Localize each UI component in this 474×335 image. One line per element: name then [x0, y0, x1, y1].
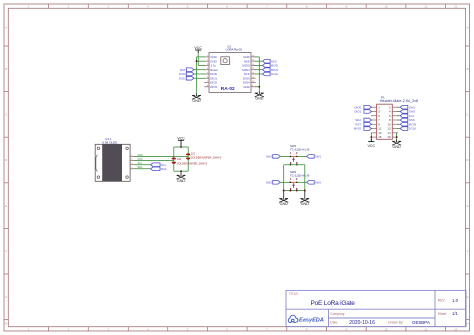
wire RST to Reset pin: [194, 69, 205, 71]
wire to MISO flag: [255, 69, 262, 71]
svg-text:C: C: [5, 113, 7, 117]
wire GND vertical left of U2: [196, 57, 198, 94]
op-amp U2 LORA Ra-02 module body: [209, 53, 251, 93]
node SW2 flag left: [266, 180, 280, 184]
wire to MOSI flag: [255, 64, 262, 66]
node DIO0 flag at P1: [354, 105, 371, 109]
svg-text:DIO3: DIO3: [210, 85, 217, 89]
svg-text:11: 11: [424, 5, 427, 9]
svg-text:RA-02: RA-02: [221, 86, 235, 92]
svg-text:EasyEDA: EasyEDA: [299, 318, 324, 324]
junction dot: [370, 136, 372, 138]
display U1.1 pins 1-4: [130, 155, 143, 170]
wire to SW2 flag at P1: [398, 110, 401, 112]
wire P1 pins 14,16 to GND: [396, 133, 398, 141]
wire jumper loop right: [187, 147, 189, 171]
node DIO1 flag: [179, 76, 194, 80]
svg-text:OE5BPA: OE5BPA: [412, 320, 431, 325]
jumper SJ1 pads: [186, 153, 191, 159]
wire OLED SCL: [133, 164, 150, 166]
svg-text:GND: GND: [392, 145, 401, 149]
svg-text:0.96 OLED: 0.96 OLED: [102, 140, 118, 144]
ground below P1: [392, 140, 401, 149]
svg-text:B: B: [5, 67, 7, 71]
ground below SW2 left: [279, 191, 288, 207]
node SCL flag at P1: [400, 114, 415, 118]
node RST flag at P1: [355, 122, 371, 126]
wire U2 pin1 GND: [197, 56, 205, 58]
wire jumper loop bottom: [174, 170, 188, 172]
svg-text:GND: GND: [280, 202, 289, 206]
svg-text:SW2: SW2: [315, 180, 322, 184]
svg-text:Company:: Company:: [330, 312, 345, 316]
wire to SCLK flag at P1: [398, 128, 401, 130]
svg-text:GND: GND: [192, 99, 201, 103]
svg-text:Date:: Date:: [330, 321, 338, 325]
display U1.1 left bracket mark: [96, 155, 98, 172]
wire to SCL flag at P1: [398, 115, 401, 117]
title block dividers: [286, 290, 466, 326]
wire P1 pins 13,15 to VCC: [370, 133, 372, 142]
svg-text:12: 12: [454, 5, 458, 9]
junction dot: [180, 170, 182, 172]
svg-text:PoE LoRa iGate: PoE LoRa iGate: [311, 300, 356, 307]
node SW1 flag left: [266, 155, 280, 159]
switch SW2 body: [289, 177, 298, 191]
svg-text:D: D: [5, 158, 7, 162]
svg-text:REV:: REV:: [438, 299, 446, 303]
wire SW1 to right flag: [297, 155, 307, 157]
wire OLED VCC to SJ2: [133, 160, 174, 162]
svg-text:C: C: [467, 113, 469, 117]
connector P1 right pins even: [387, 105, 398, 139]
wire DIO1: [194, 77, 205, 79]
switch SW1 body: [289, 151, 298, 165]
wire OLED SDA: [133, 168, 150, 170]
svg-text:SJ2: SJ2: [177, 158, 182, 161]
wire OLED GND to SJ1: [133, 155, 188, 157]
svg-text:TITLE:: TITLE:: [289, 292, 299, 296]
svg-text:SOLDERJUMPER_2WAYS: SOLDERJUMPER_2WAYS: [191, 157, 222, 160]
svg-text:10: 10: [384, 327, 388, 331]
wire SW2 to right flag: [297, 181, 307, 183]
junction dots bottom rail: [283, 190, 285, 192]
svg-text:A: A: [5, 25, 7, 29]
jumper SJ2 pads: [172, 157, 177, 163]
wire U2 pin9 GND: [255, 86, 259, 88]
node MISO flag: [263, 68, 279, 72]
node SW2 flag at P1: [400, 110, 415, 114]
svg-text:TC-1102-A-L-B: TC-1102-A-L-B: [290, 148, 309, 152]
wire to SW1 flag at P1: [398, 106, 401, 108]
svg-text:A: A: [467, 25, 469, 29]
svg-text:MISO: MISO: [354, 127, 362, 131]
VCC power flag below P1: [368, 139, 376, 148]
ground below SW2 right: [300, 191, 309, 207]
display U1.1 screen area: [102, 144, 122, 181]
svg-text:SCLK: SCLK: [271, 72, 279, 76]
VCC power flag above U2: [194, 46, 202, 53]
node RST flag: [180, 68, 194, 72]
node DIO1 flag at P1: [354, 110, 371, 114]
node SW1 flag at P1: [400, 105, 415, 109]
wire button loop bottom: [284, 190, 305, 192]
node DIO0 flag: [179, 72, 194, 76]
wire jumper loop top: [174, 146, 188, 148]
svg-text:D: D: [467, 158, 469, 162]
svg-text:F: F: [467, 249, 469, 253]
wire GND vertical right of U2: [258, 57, 260, 91]
connector P1 body: [377, 104, 393, 139]
svg-text:E: E: [467, 204, 469, 208]
svg-text:GND: GND: [243, 85, 249, 89]
svg-text:DIO1: DIO1: [354, 110, 361, 114]
wire left to SW2: [280, 181, 290, 183]
svg-text:GND: GND: [255, 97, 264, 101]
svg-text:GND: GND: [301, 202, 310, 206]
node NSS flag at P1: [400, 118, 415, 122]
svg-text:B: B: [467, 67, 469, 71]
svg-text:Drawn By:: Drawn By:: [388, 321, 403, 325]
svg-text:2020-10-16: 2020-10-16: [349, 320, 375, 326]
svg-text:11: 11: [424, 327, 427, 331]
svg-text:GND: GND: [177, 179, 186, 183]
svg-text:10: 10: [384, 5, 388, 9]
svg-text:SW1: SW1: [266, 155, 273, 159]
wire VCC to 3.3v pin: [197, 53, 199, 65]
svg-text:SDA: SDA: [161, 167, 167, 171]
node SW1 flag right: [307, 155, 322, 159]
node SDA flag at P1: [355, 118, 371, 122]
node SCL flag: [151, 163, 167, 167]
svg-text:SJ1: SJ1: [191, 152, 196, 155]
svg-text:16: 16: [387, 135, 391, 139]
wire U2 pin2 GND: [197, 60, 205, 62]
svg-text:1.0: 1.0: [452, 298, 459, 303]
svg-text:LORA Ra-02: LORA Ra-02: [226, 48, 243, 52]
svg-text:SOLDERJUMPER_2WAYS: SOLDERJUMPER_2WAYS: [177, 163, 208, 166]
EasyEDA logo: [288, 315, 324, 323]
svg-text:15: 15: [378, 135, 382, 139]
node MOSI flag: [263, 64, 279, 68]
wire jumper loop left: [173, 147, 175, 171]
node MOSI flag at P1: [400, 122, 416, 126]
node SW2 flag right: [307, 180, 322, 184]
display U1.1 body: [95, 144, 130, 181]
wire button loop right: [304, 165, 306, 191]
VCC power flag above jumpers: [177, 136, 185, 147]
svg-text:VCC: VCC: [177, 136, 185, 140]
title block outline: [286, 290, 466, 326]
svg-text:SW1: SW1: [315, 155, 322, 159]
node SCLK flag at P1: [400, 127, 416, 131]
node SDA flag: [151, 167, 167, 171]
junction dot: [258, 86, 260, 88]
svg-text:1/1: 1/1: [452, 311, 458, 316]
wire button loop top: [284, 164, 305, 166]
svg-text:TC-1102-A-L-B: TC-1102-A-L-B: [290, 174, 309, 178]
node SCLK flag: [263, 72, 279, 76]
ground right of U2: [255, 91, 264, 100]
node NSS flag: [263, 59, 277, 63]
wire to MOSI flag at P1: [398, 123, 401, 125]
wire to NSS flag: [255, 60, 262, 62]
svg-text:SCLK: SCLK: [409, 127, 417, 131]
wire to SCLK flag: [255, 73, 262, 75]
ground left of U2: [192, 94, 201, 103]
connector P1 left pins odd: [371, 105, 382, 139]
U2 right pins 9-16: [242, 55, 255, 89]
svg-text:VCC: VCC: [368, 144, 376, 148]
svg-text:H: H: [5, 321, 7, 325]
U2 left pins 1-8: [204, 55, 218, 89]
svg-text:F: F: [5, 249, 7, 253]
svg-text:VCC: VCC: [194, 46, 202, 50]
U2 antenna icon: [221, 57, 230, 65]
svg-text:DIO1: DIO1: [179, 76, 186, 80]
wire U2 pin16 GND: [255, 56, 259, 58]
svg-text:E: E: [5, 204, 7, 208]
junction dot: [180, 146, 182, 148]
display U1.1 mounting holes: [97, 147, 128, 178]
svg-text:H: H: [467, 321, 469, 325]
wire left to SW1: [280, 155, 290, 157]
ground below jumpers: [176, 171, 185, 183]
svg-text:Header-Male-2.54_2x8: Header-Male-2.54_2x8: [380, 99, 418, 103]
wire to NSS flag at P1: [398, 119, 401, 121]
junction dot: [196, 60, 198, 62]
wire DIO0: [194, 73, 205, 75]
svg-text:Sheet:: Sheet:: [438, 312, 448, 316]
node MISO flag at P1: [354, 127, 372, 131]
svg-text:SW2: SW2: [266, 180, 273, 184]
svg-text:12: 12: [454, 327, 458, 331]
wire button loop left: [283, 165, 285, 191]
junction dot: [396, 136, 398, 138]
